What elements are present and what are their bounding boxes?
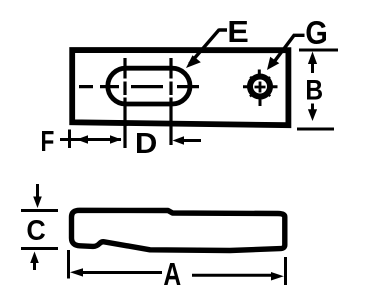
dimension A line right segment	[192, 274, 274, 277]
dimension A right arrowhead	[271, 272, 284, 281]
dimension F line	[60, 138, 121, 141]
label D	[137, 133, 156, 153]
dimension F extension tick	[68, 130, 71, 149]
dimension A left arrowhead	[70, 268, 83, 276]
label G	[307, 21, 327, 44]
hole G serration bumps	[250, 77, 270, 97]
dimension C down arrow	[33, 184, 42, 208]
hole G center cross	[255, 82, 266, 93]
top view plate outline	[72, 50, 288, 125]
label B	[307, 80, 322, 100]
slot left vertical centerline	[123, 58, 126, 148]
dimension C up arrow	[30, 252, 39, 271]
label A	[164, 263, 181, 285]
dimension A right extension line	[284, 257, 287, 285]
leader line E	[190, 30, 228, 65]
dimension D outside arrow	[173, 136, 202, 145]
side view outline	[72, 210, 285, 250]
dimension B arrows and stems	[308, 52, 317, 122]
dimension F right arrowhead	[110, 135, 122, 144]
dimension A left extension line	[67, 250, 70, 279]
horizontal centerline through slot	[79, 85, 199, 88]
label F	[42, 131, 53, 151]
hole G centermark dashes	[243, 70, 278, 107]
dimension A line left segment	[81, 271, 162, 274]
dimension C bottom tick	[21, 247, 58, 250]
leader arrowhead G	[267, 57, 279, 70]
label E	[230, 21, 248, 42]
hole G ring	[243, 70, 278, 107]
dimension F left arrowhead	[77, 135, 89, 144]
slot right vertical centerline	[169, 58, 172, 145]
dimension C top tick	[21, 209, 58, 212]
leader line G	[271, 35, 305, 66]
slot E outline	[108, 68, 190, 104]
label C	[27, 220, 44, 240]
dimension B extension ticks	[297, 50, 338, 129]
leader arrowhead E	[186, 55, 201, 68]
